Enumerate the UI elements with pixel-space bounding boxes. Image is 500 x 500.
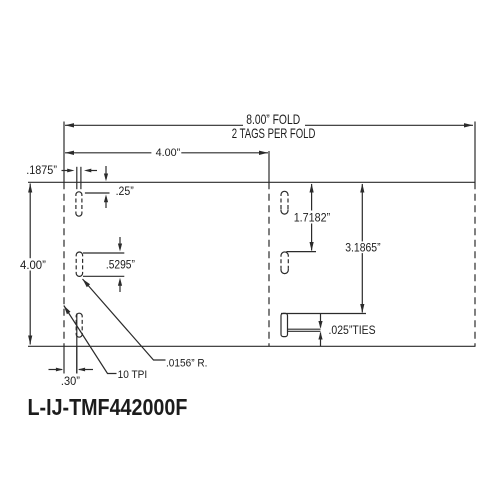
arrowhead 3.1865 top [360,184,364,193]
slot A [281,191,288,214]
svg-text:1.7182”: 1.7182” [294,212,331,225]
arrowhead .1875 left [67,169,74,173]
arrowhead .5295 top [118,244,122,252]
arrowhead .025 top [318,321,322,329]
arrowhead .1875 right [84,169,91,173]
dim .30 arrow lines [49,369,63,371]
right edge dashed line [474,182,476,346]
svg-text:L-IJ-TMF442000F: L-IJ-TMF442000F [28,395,188,421]
dim 8.00 line left part [65,124,243,126]
arrowhead 1.7182 top [310,184,314,193]
center fold dashed line [268,182,270,346]
tag top edge [28,181,476,183]
left fold extension above [63,122,65,183]
svg-text:.25”: .25” [116,186,134,199]
dim .1875 arrow lines [62,170,69,172]
svg-text:.5295”: .5295” [106,259,135,272]
arrowhead .025 bottom [318,332,322,340]
slot 1 [76,192,82,216]
svg-text:2 TAGS PER FOLD: 2 TAGS PER FOLD [232,126,316,141]
leader .0156 R [83,279,166,360]
slot B top extension [286,251,316,253]
arrowhead 1.7182 bottom [310,242,314,251]
slot 2 [76,252,82,276]
arrowhead 8.00 left [65,123,74,127]
arrowhead 8.00 right [464,123,473,127]
dim 4.00 vertical line [29,184,31,259]
svg-text:3.1865”: 3.1865” [345,242,381,255]
arrowhead 4.00v top [28,184,32,193]
leader 10 TPI [64,306,117,374]
dim .5295 bottom line [83,275,124,277]
tag bottom edge [28,345,476,347]
dim 1.7182 line [311,184,313,211]
svg-text:4.00”: 4.00” [20,260,46,272]
arrowhead .5295 bottom [118,278,122,286]
arrowhead 4.00v bottom [28,336,32,345]
arrowhead 4.00h left [65,151,74,155]
slot C [281,313,288,336]
dim .25 arrows stems [105,166,107,179]
svg-text:10 TPI: 10 TPI [118,369,148,381]
center fold extension above [268,151,270,182]
arrowhead leader 10 TPI [64,306,71,315]
slot C top extension [281,313,366,315]
dim 4.00 horizontal line left part [65,152,151,154]
dim .025 arrow stems [320,314,322,328]
right edge extension above [474,122,476,183]
arrowhead leader .0156 [83,279,91,287]
svg-text:.0156” R.: .0156” R. [166,357,207,370]
slit lines top left [76,167,78,189]
left fold dashed line [63,182,65,346]
svg-text:.025”TIES: .025”TIES [329,324,376,337]
dim .5295 top line [83,252,124,254]
extension for .30 right [76,346,78,373]
slot 3 left extension line [76,314,78,374]
arrowhead .25 bottom [104,195,108,203]
svg-text:4.00”: 4.00” [156,147,181,159]
arrowhead 3.1865 bottom [360,304,364,313]
arrowhead .30 right [78,368,85,372]
arrowhead 4.00h right [259,151,268,155]
dim .5295 arrow stems [119,237,121,249]
dim 3.1865 line [361,184,363,241]
slot 3 [76,313,82,337]
arrowhead .25 top [104,174,108,182]
svg-text:.30”: .30” [61,376,80,388]
svg-text:.1875”: .1875” [26,165,57,177]
dim .25 line [85,192,110,194]
slot B [281,252,288,274]
arrowhead .30 left [56,368,63,372]
dim 8.00 line right part [305,124,473,126]
dim 4.00 horizontal line right part [181,152,268,154]
left fold extension below [63,346,65,373]
svg-text:8.00” FOLD: 8.00” FOLD [246,112,300,128]
tie lines [287,328,321,330]
